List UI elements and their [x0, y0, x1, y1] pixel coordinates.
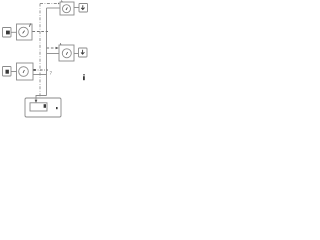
arrowhead at unit B: [56, 47, 59, 50]
C2 needle mark: [23, 31, 25, 34]
label tick at C2 corner: [29, 23, 31, 26]
solid wire bus to unit B: [47, 53, 60, 55]
machine boundary dash-dot line, horizontal top segment: [40, 3, 58, 5]
machine boundary dash-dot line, vertical segment: [39, 4, 41, 99]
solid wire from D2 to bus: [33, 74, 47, 76]
B1 gauge circle: [62, 49, 71, 58]
junction blob at D2 output: [33, 69, 35, 71]
wire: bus top elbow to unit A: [47, 7, 61, 9]
A2 inner glyph: [81, 5, 84, 9]
dashed control wire to unit B with arrowhead: [47, 47, 56, 49]
D1 inner glyph: [6, 70, 9, 74]
D2 needle mark: [23, 70, 24, 73]
C2 gauge circle: [19, 27, 29, 37]
machine boundary end dot: [58, 3, 59, 4]
svg-text:7: 7: [50, 71, 53, 76]
figure side label: [83, 74, 85, 76]
component C2: gauge box, top-left unit: [17, 24, 33, 40]
C1 inner glyph: [6, 31, 10, 35]
label tick at B1 corner: [59, 43, 62, 45]
dashed signal wire from D2 to bus: [34, 69, 49, 71]
wire D1 to D2: [11, 71, 17, 73]
control unit inner box: [30, 103, 47, 111]
arrowhead into control unit inner box: [35, 100, 38, 103]
small dot label in outer box: [56, 107, 58, 109]
inner box glyph: [44, 104, 46, 108]
B1 needle mark: [66, 52, 67, 55]
wire: solid bus vertical: [46, 8, 48, 96]
B2 inner glyph: [81, 50, 84, 54]
wire B1 to B2: [74, 53, 79, 55]
dashed signal wire from C2 to bus: [33, 31, 49, 33]
component B1: gauge box, middle-right unit: [59, 45, 74, 61]
component B2: small device box, middle-right: [79, 48, 88, 57]
wire: bus bottom elbow toward control unit: [36, 96, 47, 102]
component D1: small device box, bottom-left: [3, 67, 12, 77]
control unit outer box: [25, 98, 61, 117]
label tick at A1 corner: [61, 0, 64, 2]
component A1: gauge box, top-right unit: [60, 2, 74, 15]
wire A1 to A2: [74, 7, 79, 9]
component D2: gauge box, bottom-left unit: [17, 63, 34, 80]
A1 needle mark: [66, 7, 67, 10]
wire C1 to C2: [11, 31, 17, 33]
component A2: small device box, top-right: [79, 4, 88, 13]
D2 gauge circle: [19, 67, 29, 77]
component C1: small device box, top-left: [3, 28, 12, 38]
A1 gauge circle: [63, 5, 71, 13]
